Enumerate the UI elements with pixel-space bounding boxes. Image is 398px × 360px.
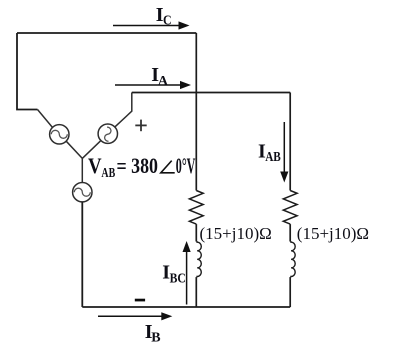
wire: middle branch vertical lower — [195, 277, 197, 307]
wire: Y junction to source A — [82, 140, 101, 158]
current arrow IA — [115, 81, 191, 89]
wire: right branch vertical upper — [289, 93, 291, 191]
AC source (phase C) — [50, 125, 69, 144]
wire: top horizontal (node C to middle branch) — [17, 32, 196, 34]
wire: source C to Y junction — [66, 141, 82, 158]
svg-text:AB: AB — [101, 166, 115, 181]
AC source (phase B) — [73, 183, 92, 202]
svg-text:0°V: 0°V — [176, 153, 196, 178]
current arrow IAB — [280, 122, 288, 183]
svg-text:V: V — [88, 153, 102, 178]
AC source (phase A) — [98, 124, 117, 143]
resistor (right branch, part of (15+j10) ohm load) — [283, 191, 297, 225]
wire — [289, 224, 291, 241]
svg-text:(15+j10)Ω: (15+j10)Ω — [297, 224, 369, 243]
wire: source B down to bottom rail — [81, 202, 83, 307]
svg-text:(15+j10)Ω: (15+j10)Ω — [200, 224, 272, 243]
current arrow IB — [98, 312, 172, 320]
wire: right branch vertical lower — [289, 277, 291, 307]
wire: phase A horizontal to right branch — [132, 92, 290, 94]
polarity plus sign — [135, 120, 146, 132]
wire: Y junction down to source B — [81, 158, 83, 182]
wire — [195, 224, 197, 241]
inductor (right branch, part of (15+j10) ohm load) — [290, 242, 295, 278]
svg-text:C: C — [163, 13, 172, 28]
polarity minus sign — [135, 299, 145, 302]
current arrow IC — [113, 21, 190, 29]
svg-text:A: A — [158, 74, 169, 89]
wire: middle branch vertical upper — [195, 33, 197, 191]
svg-text:BC: BC — [170, 271, 186, 286]
wire: left vertical — [17, 33, 38, 110]
wire: source A up to node A corner — [115, 93, 132, 127]
wire: diagonal into source C — [38, 110, 53, 128]
label VAB = 380 angle 0 deg V — [88, 153, 195, 181]
current arrow IBC — [183, 241, 191, 305]
inductor (middle branch, part of (15+j10) ohm load) — [196, 242, 201, 278]
svg-text:B: B — [151, 331, 160, 346]
wire: bottom rail — [82, 306, 290, 308]
svg-text:AB: AB — [265, 150, 281, 165]
svg-text:= 380: = 380 — [117, 153, 159, 178]
angle symbol — [161, 161, 175, 173]
resistor (middle branch, part of (15+j10) ohm load) — [189, 191, 203, 225]
